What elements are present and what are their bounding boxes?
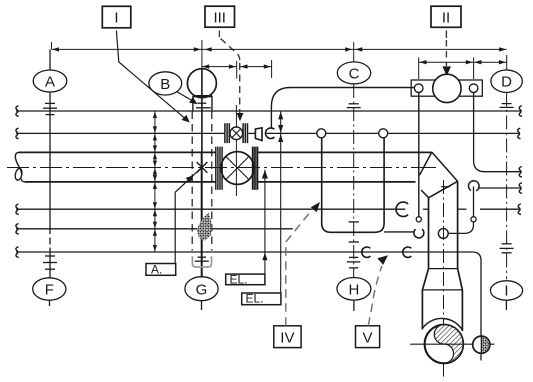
probe stem envelope (dashed) [192,112,212,251]
rotary counter (small hatched circle) [473,336,490,353]
regulator frame [411,80,482,96]
hatched blob (sealed area) [197,213,212,241]
small valve right flange [243,123,247,143]
C-fitting on line3 (x=403) [396,202,408,216]
svg-text:III: III [213,9,226,26]
C-fitting on line5 (x=408) [403,247,412,257]
big valve body circle [221,152,254,185]
stub from C-fitting down to junction [473,187,475,217]
rotary meter circle with yin-yang rotor [425,325,464,364]
EL. leader 1 (x=264.9) [262,170,268,275]
tube from regulator left port down [418,93,420,217]
svg-text:H: H [348,281,359,298]
probe lower stem [201,152,203,278]
dashed leader from box III [219,31,239,114]
column D-I centerline (dash-dot) [506,92,508,279]
svg-text:IV: IV [280,329,294,346]
pipe line 5 (y=252) [16,247,473,257]
svg-text:EL.: EL. [230,272,248,286]
box V [356,326,380,348]
meter port circle [438,229,448,239]
main pipe (big pipe, y=152.4 top / 181.9 bottom) [14,152,432,182]
box EL. 1 [226,272,265,286]
ticks on column C at line1 [347,104,361,108]
balloon C [337,62,370,84]
svg-text:V: V [362,329,372,346]
right side line y=171.7 (from regulator right port) [474,93,522,178]
column A-F centerline (x=50) [50,42,52,306]
ticks on column F above balloon [43,256,57,269]
ticks on column A at line1 [43,103,57,114]
left vertical dimension chain (x=154.9) [154,111,156,252]
box I [102,6,131,28]
ticks on probe column below line5 [195,257,209,261]
svg-text:B: B [160,76,170,93]
box III [205,6,235,27]
pipe line 3 (y=209.2) [16,204,521,215]
svg-text:D: D [501,74,512,91]
junction circle left (x=419) [416,217,421,222]
pipe line 1 (impulse line, y=111) [16,106,522,117]
U loop between taps [322,138,384,233]
regulator right port [469,84,478,93]
reducer cone after small valve [255,128,262,141]
balloon F [33,278,66,300]
tap line from U loop to quick coupling [384,231,414,233]
small valve left flange [225,123,229,143]
meter barrel centerline [443,180,445,377]
dashed leader from box II [445,31,447,67]
svg-text:I: I [504,283,508,300]
ticks on column H [347,222,360,268]
balloon I [490,281,522,310]
meter barrel [422,181,462,331]
junction circle right (x=474) [471,217,476,222]
ticks on probe column at line1 [196,103,211,108]
small valve centerline (x=236.4) [235,105,237,127]
leader from B to actuator [177,92,198,105]
big valve left flange [216,147,222,190]
box A. [146,262,176,276]
probe actuator head (B device, x=202) [187,40,216,152]
C-fitting below junction (open top, x=419) [414,229,424,238]
regulator left port [414,84,423,93]
pressure regulator assembly [411,74,482,102]
line 5 drop to rotary counter [473,252,482,361]
box II [431,6,461,27]
second dimension row (right pair) y=62.2 [419,58,507,80]
balloon B [149,72,182,95]
measuring point X mark on pipe centerline [197,162,208,173]
dashed leader from IV to U loop [286,206,316,326]
svg-text:I: I [114,10,118,27]
regulator diaphragm body [433,74,461,102]
column C-H centerline (x=353.7, dash-dot) [353,84,355,277]
EL. leader 2 (x=280.7) [278,112,283,294]
separator head (angled inlet) [420,152,458,198]
svg-text:C: C [349,65,360,82]
pipe line 2 (y=133.4) [16,128,521,139]
second dimension row (left pair) y=66.6 [201,60,271,79]
dashed leader from V [368,266,382,326]
big valve right flange [253,147,258,190]
top dimension line y=49.4 [52,42,507,70]
leader from box A. to X mark [175,168,201,263]
big valve on main pipe [216,147,258,190]
small valve body [230,127,243,140]
svg-text:G: G [196,281,208,298]
main pipe centerline (dash-dot) [7,167,407,169]
C-fitting under line y=188 (open bottom, x=473.2) [469,181,480,191]
svg-text:A.: A. [151,262,162,276]
pipe line 4 (y=228.8) [16,224,293,235]
svg-text:II: II [442,9,450,26]
sensing tube from C-fitting up to regulator [271,88,414,128]
box EL. 2 [242,292,281,306]
svg-text:A: A [45,74,55,91]
svg-text:F: F [45,282,54,299]
thermowell cup (gray) at line5 [192,256,211,267]
box IV [274,326,301,348]
C-fitting on line2 (x=272) [266,128,275,139]
right side line y=188 (from C-fitting) [478,183,522,194]
balloon H [337,278,371,312]
meter outer casing arc [423,318,463,330]
balloon A [33,70,67,92]
balloon D [491,70,522,92]
tap circle 1 on line2 [317,129,326,138]
ticks on column I [500,244,514,253]
tube from right junction to meter port [448,222,473,234]
ticks on column D at line1 [500,104,514,108]
tap circle 2 on line2 [379,129,388,138]
meter horizontal centerline [410,343,494,345]
leader from box I [116,31,189,123]
C-fitting on line5 (x=367) [362,247,371,257]
small valve on line 2 [225,123,248,143]
svg-text:EL.: EL. [246,292,264,306]
balloon G [185,277,218,310]
